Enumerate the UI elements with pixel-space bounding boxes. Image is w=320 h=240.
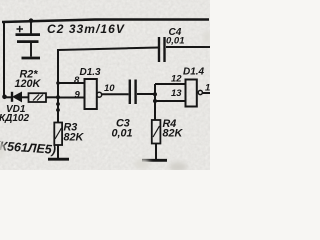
inverter bubble D1.4 [198,90,202,94]
svg-text:9: 9 [75,90,81,101]
node: blob at left wire / VD1 [2,95,7,100]
capacitor C3 [130,80,155,105]
node: dot pin9 junction [56,95,60,99]
wire: pin 8 input [58,82,85,84]
wire: D1.4 input junction vertical [154,84,156,120]
resistor R3 [48,123,69,160]
node: dot pin13 junction [153,99,157,103]
node: dot C3 to junction [153,92,157,96]
resistor R4 [142,120,167,160]
capacitor C2 (electrolytic) [16,21,41,58]
capacitor C4 [159,37,210,62]
svg-text:10: 10 [104,83,115,94]
svg-text:0,01: 0,01 [112,128,133,140]
gate D1.3 [85,79,97,109]
polarity + sign of C2 [17,26,24,33]
wire: pin 10 output [102,93,129,95]
svg-text:0,01: 0,01 [166,36,185,47]
svg-text:82K: 82K [163,128,184,140]
inverter bubble D1.3 [97,92,102,97]
svg-text:D1.4: D1.4 [183,67,205,78]
wire: +V top rail [2,20,209,23]
svg-text:82K: 82K [64,132,85,144]
svg-text:11: 11 [205,83,210,94]
svg-text:120K: 120K [15,78,42,90]
wire: D1.4 output [202,92,210,94]
svg-text:КД102: КД102 [0,113,29,124]
svg-text:D1.3: D1.3 [80,67,102,78]
diode VD1 [4,92,29,102]
resistor R2 [29,93,59,102]
node: dot below pin9 [56,102,60,106]
svg-text:12: 12 [171,74,182,85]
scan smudges [0,31,211,172]
wire: left vertical from rail to VD1 [3,21,5,98]
wire: pin 9 input [58,97,85,99]
wire: pin 13 input [155,100,186,102]
node: dot at R3 top [56,108,60,112]
node: junction dot C2 on top rail [29,18,34,23]
node: dot pin8 junction [56,81,60,85]
wire: horizontal to C4 [58,48,159,51]
svg-text:13: 13 [171,88,182,99]
wire: feedback bus vertical x=58 [57,49,59,123]
svg-text:C2 33m/16V: C2 33m/16V [47,22,125,36]
wire: pin 12 input [155,83,186,85]
svg-text:8: 8 [74,75,80,86]
gate D1.4 [186,80,197,107]
